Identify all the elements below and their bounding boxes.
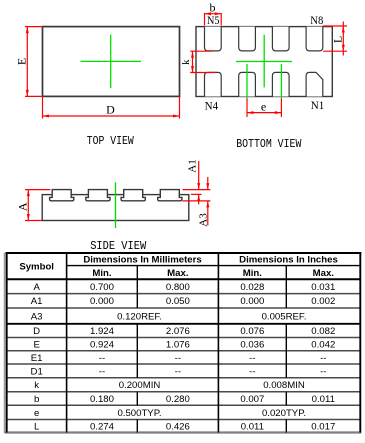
svg-text:--: -- <box>320 353 326 364</box>
pad N3 (bottom view, bottom row) <box>239 72 256 96</box>
dimension E <box>15 27 43 97</box>
table row A1 <box>31 296 336 307</box>
top view center mark <box>81 35 142 88</box>
svg-text:k: k <box>180 59 192 65</box>
svg-text:0.200MIN: 0.200MIN <box>119 380 161 391</box>
bottom view center mark <box>236 35 292 88</box>
svg-text:N1: N1 <box>311 98 325 112</box>
svg-text:0.031: 0.031 <box>311 282 335 293</box>
svg-text:2.076: 2.076 <box>166 326 190 337</box>
side view lead 2 <box>86 190 110 201</box>
table left page edge line <box>4 253 6 434</box>
table row L <box>34 421 335 432</box>
svg-text:0.274: 0.274 <box>90 421 115 432</box>
table row b <box>34 394 335 405</box>
svg-text:N5: N5 <box>207 13 220 27</box>
table row A3 <box>31 311 307 322</box>
svg-text:Min.: Min. <box>92 268 111 279</box>
svg-text:0.700: 0.700 <box>90 282 114 293</box>
svg-text:--: -- <box>175 366 181 377</box>
svg-text:N4: N4 <box>205 99 219 113</box>
table row e <box>34 408 306 419</box>
svg-text:b: b <box>34 394 39 405</box>
svg-text:e: e <box>261 100 266 114</box>
svg-text:0.011: 0.011 <box>241 421 264 432</box>
svg-text:Max.: Max. <box>167 268 188 279</box>
svg-text:0.007: 0.007 <box>240 394 264 405</box>
pad N7 (bottom view, top row) <box>272 27 289 51</box>
dimension D <box>43 96 180 118</box>
pad N8 (bottom view, top row) <box>306 27 323 51</box>
pad N6 (bottom view, top row) <box>239 27 256 51</box>
table row E1 <box>31 353 327 364</box>
table row D <box>33 326 335 337</box>
side view package body <box>42 195 189 221</box>
svg-text:--: -- <box>99 366 105 377</box>
top view package outline <box>43 27 180 97</box>
svg-text:0.500TYP.: 0.500TYP. <box>117 408 161 419</box>
table row k <box>34 380 305 391</box>
svg-text:0.011: 0.011 <box>312 394 335 405</box>
pad N2 (bottom view, bottom row) <box>272 72 289 96</box>
table row A <box>33 282 335 293</box>
svg-text:TOP VIEW: TOP VIEW <box>87 134 135 148</box>
svg-text:0.180: 0.180 <box>90 394 114 405</box>
dimension b <box>205 1 222 26</box>
side view lead 1 <box>50 190 74 201</box>
pad N4 (bottom view, bottom row) <box>205 72 222 96</box>
svg-text:0.000: 0.000 <box>240 296 264 307</box>
svg-text:SIDE VIEW: SIDE VIEW <box>90 239 147 253</box>
svg-text:Dimensions In Inches: Dimensions In Inches <box>239 255 338 266</box>
svg-text:A3: A3 <box>31 311 43 322</box>
svg-text:D1: D1 <box>31 366 43 377</box>
svg-text:0.002: 0.002 <box>311 296 335 307</box>
dimension L <box>323 22 347 56</box>
side view lead 3 <box>121 190 145 201</box>
svg-text:L: L <box>34 421 40 432</box>
svg-text:0.082: 0.082 <box>311 326 335 337</box>
dimensions table grid <box>5 252 362 432</box>
svg-text:0.028: 0.028 <box>240 282 264 293</box>
svg-text:0.020TYP.: 0.020TYP. <box>262 408 306 419</box>
svg-text:E: E <box>15 58 29 65</box>
svg-text:0.426: 0.426 <box>166 421 190 432</box>
svg-text:N8: N8 <box>310 13 323 27</box>
svg-text:0.280: 0.280 <box>166 394 190 405</box>
dimension e <box>247 99 281 117</box>
svg-text:0.042: 0.042 <box>311 340 335 351</box>
svg-text:--: -- <box>320 366 326 377</box>
svg-text:E: E <box>33 340 39 351</box>
svg-text:Dimensions In Millimeters: Dimensions In Millimeters <box>83 255 201 266</box>
svg-text:1.076: 1.076 <box>166 340 190 351</box>
svg-text:A: A <box>33 282 40 293</box>
dimension A3 <box>183 177 211 227</box>
svg-text:0.005REF.: 0.005REF. <box>262 311 307 322</box>
svg-text:A: A <box>16 202 30 211</box>
svg-text:A1: A1 <box>187 159 199 172</box>
side view centerline <box>115 182 117 228</box>
svg-text:0.800: 0.800 <box>166 282 190 293</box>
svg-text:D: D <box>106 102 115 116</box>
svg-text:0.008MIN: 0.008MIN <box>263 380 305 391</box>
table header row <box>19 255 337 279</box>
dimension A <box>16 190 51 221</box>
svg-text:1.924: 1.924 <box>90 326 115 337</box>
svg-text:--: -- <box>175 353 181 364</box>
svg-text:L: L <box>330 36 344 43</box>
svg-text:--: -- <box>249 353 255 364</box>
svg-text:0.076: 0.076 <box>240 326 264 337</box>
svg-text:Min.: Min. <box>243 268 262 279</box>
svg-text:e: e <box>34 408 39 419</box>
side view lead 4 <box>158 190 182 201</box>
dimension k <box>180 51 215 72</box>
svg-text:D: D <box>33 326 40 337</box>
svg-text:0.017: 0.017 <box>311 421 335 432</box>
table row D1 <box>31 366 327 377</box>
svg-text:0.120REF.: 0.120REF. <box>117 311 162 322</box>
svg-text:--: -- <box>249 366 255 377</box>
svg-text:k: k <box>34 380 39 391</box>
table row E <box>33 340 335 351</box>
svg-text:0.924: 0.924 <box>90 340 115 351</box>
svg-text:Symbol: Symbol <box>19 262 54 273</box>
dimension A1 <box>183 159 211 204</box>
svg-text:0.050: 0.050 <box>166 296 190 307</box>
svg-text:Max.: Max. <box>313 268 334 279</box>
svg-text:E1: E1 <box>31 353 43 364</box>
svg-text:BOTTOM VIEW: BOTTOM VIEW <box>236 137 302 151</box>
svg-text:0.036: 0.036 <box>240 340 264 351</box>
bottom view package outline <box>196 27 332 97</box>
svg-text:--: -- <box>99 353 105 364</box>
pad N1 with pin-1 chamfer (bottom view, bottom row) <box>306 72 323 96</box>
svg-text:A1: A1 <box>31 296 43 307</box>
svg-text:0.000: 0.000 <box>90 296 114 307</box>
svg-text:A3: A3 <box>197 213 209 227</box>
pad centerlines for e dimension <box>247 64 281 99</box>
pad N5 (bottom view, top row) <box>205 27 222 51</box>
